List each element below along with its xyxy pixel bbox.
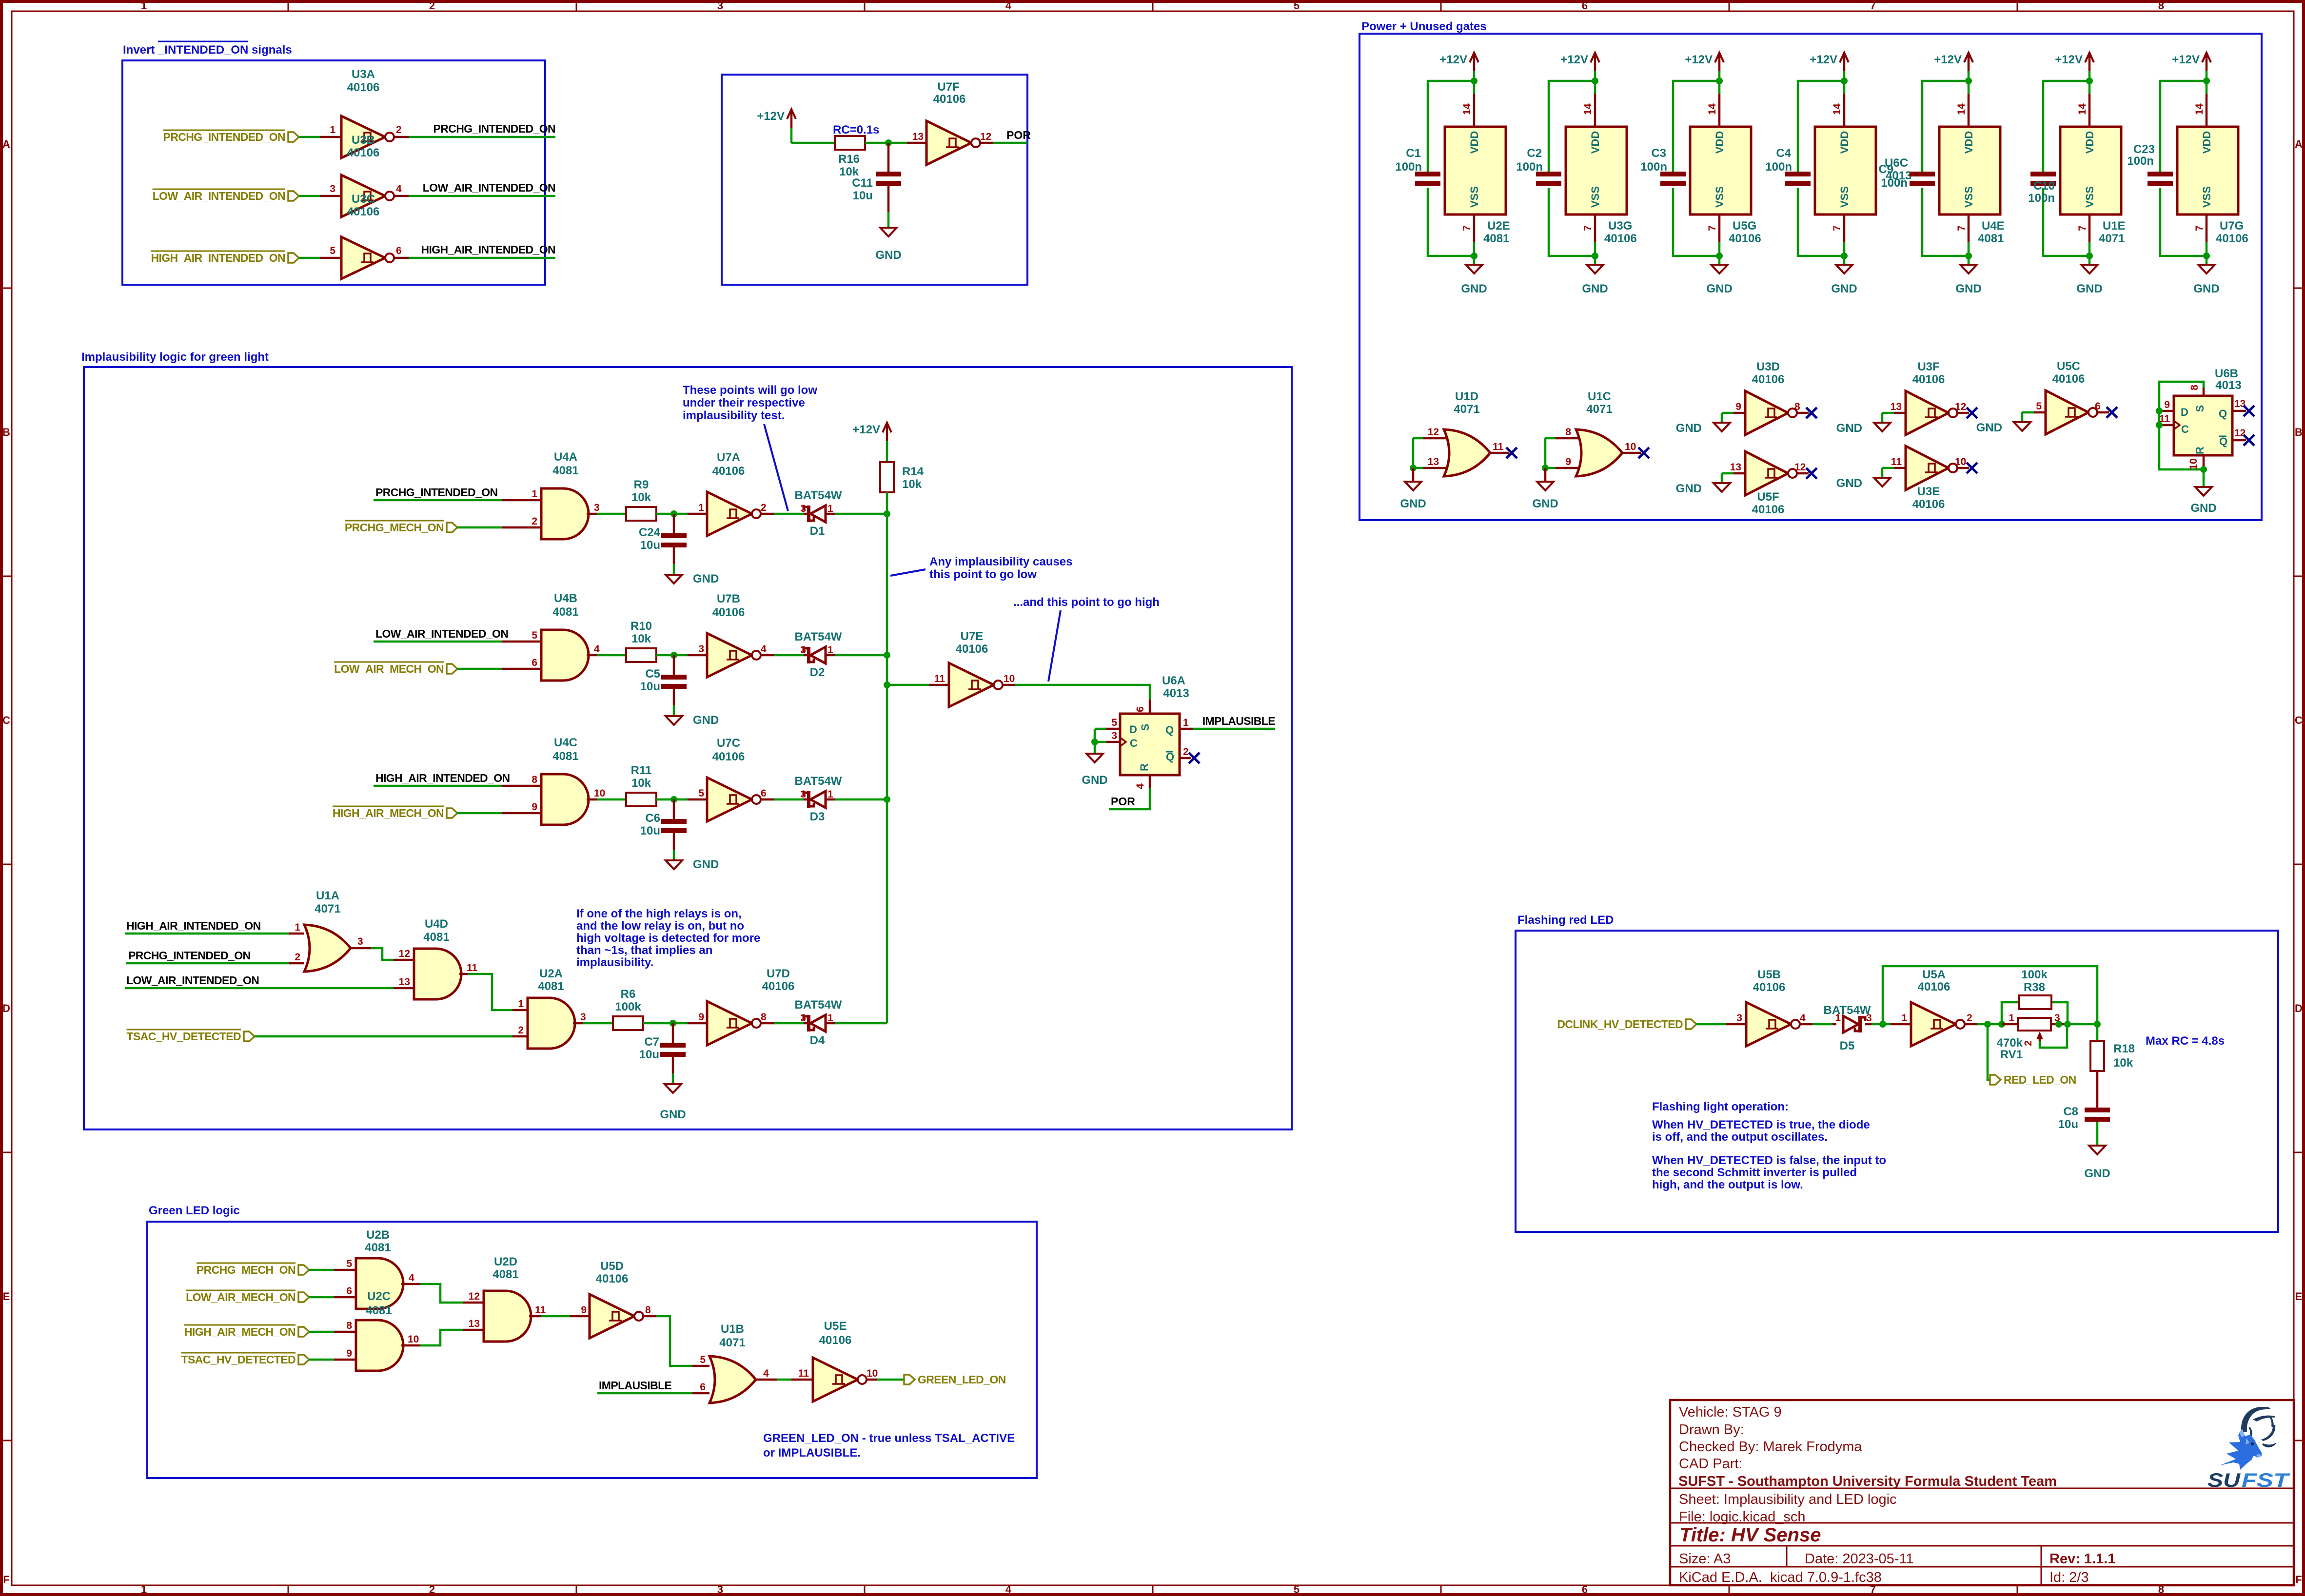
junction (U4E VSS): [1965, 253, 1972, 259]
svg-text:U3G: U3G: [1608, 219, 1632, 233]
svg-text:+12V: +12V: [852, 423, 880, 436]
svg-text:VSS: VSS: [1468, 186, 1480, 208]
svg-text:6: 6: [532, 657, 537, 668]
svg-text:U5B: U5B: [1757, 968, 1781, 981]
svg-text:3: 3: [800, 644, 806, 656]
junction (U1C inputs tied): [1542, 465, 1549, 471]
svg-text:100n: 100n: [1516, 160, 1543, 174]
svg-text:B: B: [2295, 426, 2303, 438]
svg-text:2: 2: [1183, 746, 1189, 758]
wire PRCHG_INTENDED_ON to U3A input: [299, 136, 320, 138]
svg-text:Flashing red LED: Flashing red LED: [1517, 914, 1614, 927]
svg-text:or IMPLAUSIBLE.: or IMPLAUSIBLE.: [763, 1446, 861, 1460]
pin 11 of U1D (unconnected): [1490, 452, 1509, 454]
svg-text:File: logic.kicad_sch: File: logic.kicad_sch: [1679, 1509, 1806, 1525]
pin 10 of U3E (unconnected): [1956, 467, 1969, 469]
svg-text:high voltage is detected for m: high voltage is detected for more: [576, 932, 760, 945]
svg-text:13: 13: [1428, 456, 1439, 467]
wire D4 to rail: [835, 1022, 887, 1025]
svg-text:S: S: [1139, 724, 1151, 731]
svg-text:1: 1: [532, 488, 537, 500]
ground (U3G): [1594, 256, 1596, 265]
svg-text:6: 6: [2095, 401, 2101, 412]
hierarchical label HIGH_AIR_MECH_ON (green box): [298, 1327, 309, 1337]
svg-text:U2A: U2A: [539, 967, 563, 980]
svg-text:LOW_AIR_INTENDED_ON: LOW_AIR_INTENDED_ON: [375, 627, 508, 640]
svg-text:HIGH_AIR_MECH_ON: HIGH_AIR_MECH_ON: [333, 807, 444, 819]
svg-text:5: 5: [346, 1258, 352, 1269]
svg-text:C23: C23: [2133, 143, 2155, 156]
svg-text:A: A: [2, 138, 10, 150]
junction (U1D inputs tied): [1410, 465, 1417, 471]
svg-text:U4D: U4D: [425, 917, 448, 931]
wire R11 to U7C: [656, 798, 688, 801]
OR gate U1D 4071: [1444, 429, 1490, 476]
svg-text:1: 1: [518, 998, 524, 1010]
svg-text:11: 11: [1891, 456, 1902, 467]
wire D3 to rail: [835, 798, 887, 801]
svg-text:10k: 10k: [631, 777, 651, 790]
svg-text:4081: 4081: [365, 1241, 391, 1254]
svg-text:3: 3: [717, 1583, 723, 1596]
AND gate U4D 4081: [414, 949, 461, 999]
svg-text:11: 11: [535, 1304, 546, 1316]
ground (U5F input): [1714, 483, 1730, 492]
svg-text:GND: GND: [1082, 774, 1107, 787]
svg-text:12: 12: [399, 948, 410, 959]
ground (U2E): [1473, 256, 1476, 265]
wire TSAC_HV_DETECTED to U2A pin 2: [255, 1035, 512, 1038]
ground (U1E): [2088, 256, 2091, 265]
inverter U3E 40106: [1906, 446, 1949, 490]
svg-text:C7: C7: [644, 1035, 659, 1049]
capacitor C10 100n: [2030, 172, 2056, 176]
svg-text:BAT54W: BAT54W: [795, 775, 842, 788]
svg-text:U5F: U5F: [1757, 490, 1779, 504]
ground (U3E input): [1874, 478, 1891, 487]
svg-text:HIGH_AIR_MECH_ON: HIGH_AIR_MECH_ON: [184, 1325, 296, 1338]
svg-text:Sheet: Implausibility and LED: Sheet: Implausibility and LED logic: [1679, 1492, 1897, 1507]
wire U3D input to GND: [1722, 412, 1734, 414]
svg-text:10: 10: [408, 1334, 419, 1345]
junction (U5G VSS): [1716, 253, 1723, 259]
svg-text:this point to go low: this point to go low: [929, 568, 1037, 581]
pin 4 of U6A (R) wire POR: [1149, 775, 1151, 788]
capacitor C24 10u: [673, 514, 675, 533]
hierarchical label PRCHG_MECH_ON (green box): [298, 1265, 309, 1275]
svg-text:U1B: U1B: [721, 1323, 744, 1336]
svg-text:GND: GND: [1976, 421, 2002, 434]
AND gate U2C 4081: [356, 1320, 403, 1371]
svg-text:14: 14: [1956, 103, 1967, 115]
hierarchical label PRCHG_MECH_ON: [447, 523, 457, 532]
pin 14 of U6C: [1843, 94, 1846, 127]
svg-text:GND: GND: [1706, 282, 1732, 295]
pin 1 of U6A (Q) wire IMPLAUSIBLE: [1180, 728, 1193, 730]
svg-text:10: 10: [1004, 673, 1015, 684]
svg-text:Any implausibility causes: Any implausibility causes: [929, 555, 1072, 568]
svg-text:7: 7: [2194, 225, 2205, 231]
pin 12 of U6B (unconnected): [2232, 439, 2246, 442]
wire IMPLAUSIBLE to U1B pin 6: [597, 1392, 692, 1395]
wire U3B output: [393, 195, 409, 197]
svg-text:C: C: [1130, 737, 1138, 749]
svg-text:13: 13: [2234, 398, 2246, 409]
svg-text:100n: 100n: [1395, 160, 1422, 174]
svg-text:HIGH_AIR_INTENDED_ON: HIGH_AIR_INTENDED_ON: [126, 919, 261, 932]
svg-text:U2E: U2E: [1487, 219, 1510, 233]
svg-text:GND: GND: [875, 249, 901, 262]
svg-text:10k: 10k: [631, 632, 651, 645]
svg-text:14: 14: [1707, 103, 1718, 115]
svg-text:R18: R18: [2113, 1042, 2135, 1055]
svg-text:the second Schmitt inverter is: the second Schmitt inverter is pulled: [1652, 1166, 1857, 1179]
pin 11 of U6B: [2159, 424, 2174, 427]
svg-text:40106: 40106: [819, 1334, 852, 1347]
svg-text:12: 12: [980, 131, 991, 142]
svg-text:1: 1: [141, 0, 147, 12]
capacitor C11: [887, 143, 890, 172]
wire HIGH_AIR_INTENDED_ON to U1A pin 1: [125, 933, 289, 935]
svg-text:U4A: U4A: [554, 450, 577, 464]
inverter U3B 40106: [341, 175, 385, 217]
svg-text:14: 14: [2194, 103, 2205, 115]
svg-text:1: 1: [1901, 1012, 1907, 1024]
svg-text:7: 7: [1956, 225, 1967, 231]
svg-text:1: 1: [330, 124, 335, 136]
svg-text:1: 1: [141, 1583, 147, 1596]
wire LOW_AIR_MECH_ON: [309, 1296, 334, 1299]
svg-text:10u: 10u: [853, 189, 873, 202]
svg-text:8: 8: [346, 1320, 352, 1331]
svg-text:U1C: U1C: [1588, 390, 1611, 403]
svg-text:14: 14: [2077, 103, 2088, 115]
svg-text:U6B: U6B: [2215, 367, 2238, 380]
svg-text:5: 5: [532, 630, 537, 641]
wire LOW_AIR_MECH_ON to U4B: [457, 668, 502, 670]
AND gate U2A 4081: [528, 998, 575, 1049]
junction (R9/C24): [670, 510, 677, 517]
svg-text:D: D: [2181, 406, 2188, 418]
svg-text:3: 3: [1736, 1012, 1742, 1024]
wire PRCHG_MECH_ON to U4A: [457, 526, 502, 529]
svg-text:R14: R14: [902, 465, 924, 478]
svg-text:GND: GND: [693, 714, 719, 727]
IC power block U4E 4081: [1939, 127, 2000, 214]
svg-text:100n: 100n: [2028, 192, 2055, 205]
inverter U5E 40106: [813, 1358, 858, 1401]
wire U5C input to GND: [2022, 411, 2034, 414]
svg-text:Implausibility logic for green: Implausibility logic for green light: [81, 350, 269, 364]
svg-text:D5: D5: [1840, 1039, 1855, 1052]
svg-text:U4E: U4E: [1982, 219, 2005, 233]
svg-text:5: 5: [2036, 401, 2042, 412]
bypass wire (C10): [2043, 81, 2089, 172]
wires U1C inputs: [1545, 437, 1556, 440]
svg-text:C9: C9: [1878, 163, 1893, 176]
wire HIGH_AIR_MECH_ON to U4C: [457, 812, 502, 815]
svg-text:GND: GND: [1676, 422, 1702, 435]
resistor R11: [626, 793, 656, 806]
svg-text:3: 3: [357, 936, 363, 947]
AND gate U4A 4081: [541, 488, 589, 539]
svg-text:11: 11: [1493, 441, 1504, 452]
AND gate U2D 4081: [484, 1291, 531, 1342]
pin 7 of U5G: [1718, 214, 1721, 242]
wire +12V rail (U3G): [1594, 71, 1596, 94]
svg-text:VDD: VDD: [2201, 131, 2213, 154]
svg-text:1: 1: [827, 789, 833, 800]
pin 14 of U3G: [1594, 94, 1596, 127]
svg-text:3: 3: [800, 789, 806, 800]
inverter U5B 40106: [1746, 1002, 1791, 1046]
svg-text:40106: 40106: [712, 606, 745, 619]
inverter U3A 40106: [341, 116, 385, 158]
wire rail to U7E input: [887, 684, 929, 686]
wire R10 to U7B: [656, 654, 688, 657]
svg-text:8: 8: [1794, 401, 1800, 412]
svg-text:2: 2: [532, 516, 537, 527]
section box: Invert _INTENDED_ON signals: [122, 60, 545, 285]
svg-text:IMPLAUSIBLE: IMPLAUSIBLE: [599, 1379, 672, 1392]
inverter U5D 40106: [590, 1294, 634, 1338]
junction (U5G VDD): [1716, 78, 1723, 84]
svg-text:10k: 10k: [631, 491, 651, 504]
pin 14 of U7G: [2206, 94, 2208, 127]
svg-text:4081: 4081: [1978, 232, 2004, 245]
wire R6 to U7D: [643, 1022, 688, 1025]
wire U3E input to GND: [1882, 467, 1894, 469]
diode D5 BAT54W: [1832, 1023, 1836, 1026]
svg-text:1: 1: [1183, 717, 1189, 728]
svg-text:+12V: +12V: [2055, 53, 2083, 66]
wire U6A D/C tie to ground: [1094, 729, 1096, 754]
svg-text:1: 1: [2009, 1012, 2014, 1024]
svg-text:VDD: VDD: [1838, 131, 1851, 154]
flip-flop U6A 4013: [1120, 714, 1180, 775]
power +12V (U5G): [1718, 54, 1721, 71]
svg-text:14: 14: [1832, 103, 1843, 115]
svg-text:high, and the output is low.: high, and the output is low.: [1652, 1178, 1803, 1191]
pin 10 of U6B: [2203, 455, 2205, 469]
svg-text:U3B: U3B: [352, 134, 375, 147]
hierarchical label GREEN_LED_ON (output): [904, 1375, 915, 1384]
hierarchical label TSAC_HV_DETECTED (green box): [298, 1355, 309, 1364]
junction (D5 output): [1879, 1021, 1886, 1028]
pin 5 of U6A: [1095, 728, 1106, 730]
svg-text:8: 8: [532, 774, 537, 785]
svg-text:D: D: [2, 1002, 10, 1014]
hierarchical label DCLINK_HV_DETECTED: [1686, 1019, 1696, 1029]
inverter U7B 40106: [707, 633, 752, 677]
junction (R11/C6): [670, 796, 677, 803]
wire +12V rail (U7G): [2206, 71, 2208, 94]
svg-text:3: 3: [800, 503, 806, 514]
svg-text:5: 5: [330, 245, 335, 256]
svg-text:GND: GND: [1582, 282, 1608, 295]
svg-text:GREEN_LED_ON - true unless TSA: GREEN_LED_ON - true unless TSAL_ACTIVE: [763, 1432, 1015, 1445]
svg-text:U1D: U1D: [1455, 390, 1478, 403]
svg-text:40106: 40106: [2052, 372, 2085, 386]
svg-text:4071: 4071: [719, 1336, 745, 1349]
title block outline: [1670, 1400, 2294, 1585]
inverter U3D 40106: [1745, 391, 1788, 435]
svg-text:R11: R11: [631, 764, 652, 777]
svg-text:4081: 4081: [366, 1304, 392, 1317]
svg-text:12: 12: [1794, 462, 1806, 473]
resistor R10: [626, 648, 656, 662]
power +12V (U7G): [2206, 54, 2208, 71]
svg-text:13: 13: [1891, 401, 1902, 412]
svg-text:implausibility.: implausibility.: [576, 956, 653, 969]
svg-text:GND: GND: [693, 858, 719, 871]
svg-text:14: 14: [1582, 103, 1594, 115]
svg-text:5: 5: [1294, 0, 1300, 12]
svg-text:U1E: U1E: [2103, 219, 2126, 233]
svg-text:11: 11: [467, 962, 478, 973]
svg-text:40106: 40106: [596, 1272, 629, 1285]
callout line (any implausibility): [890, 569, 926, 576]
svg-text:3: 3: [698, 643, 704, 655]
svg-text:2: 2: [396, 124, 402, 136]
svg-text:POR: POR: [1006, 129, 1031, 141]
bypass wire (C2): [1549, 81, 1595, 172]
svg-text:RC=0.1s: RC=0.1s: [833, 123, 879, 136]
svg-text:1: 1: [1835, 1012, 1841, 1024]
AND gate U2B 4081: [356, 1258, 403, 1309]
svg-text:under their respective: under their respective: [683, 396, 805, 409]
svg-text:13: 13: [1730, 462, 1741, 473]
svg-text:GND: GND: [1532, 497, 1558, 510]
svg-text:GND: GND: [1955, 282, 1981, 295]
wire U2C output to U2D pin 13: [401, 1344, 420, 1347]
ground (U6B): [2203, 469, 2205, 487]
svg-text:3: 3: [330, 183, 335, 195]
svg-text:U5D: U5D: [600, 1260, 624, 1273]
svg-text:+12V: +12V: [757, 110, 785, 123]
hierarchical label PRCHG_INTENDED_ON (input): [288, 132, 299, 142]
svg-text:4081: 4081: [493, 1268, 518, 1281]
wire PRCHG_INTENDED_ON to U4A: [374, 499, 502, 502]
junction (rail to U7E): [884, 681, 890, 688]
svg-text:VDD: VDD: [1468, 131, 1480, 154]
potentiometer RV1: [2002, 1023, 2018, 1026]
svg-text:BAT54W: BAT54W: [1824, 1004, 1871, 1017]
svg-text:1: 1: [827, 503, 833, 514]
svg-text:9: 9: [346, 1348, 352, 1359]
wire U2A output to R6: [573, 1022, 583, 1025]
svg-text:9: 9: [581, 1304, 587, 1316]
svg-text:10u: 10u: [640, 539, 660, 552]
wire U7F output POR: [979, 142, 993, 144]
svg-text:5: 5: [1294, 1583, 1300, 1596]
wire +12V rail (U4E): [1968, 71, 1970, 94]
wire RED_LED_ON tap: [1988, 1024, 1990, 1080]
svg-text:PRCHG_INTENDED_ON: PRCHG_INTENDED_ON: [375, 486, 498, 499]
svg-text:U5C: U5C: [2057, 360, 2080, 373]
svg-text:BAT54W: BAT54W: [795, 489, 842, 502]
svg-text:C24: C24: [639, 526, 661, 539]
svg-text:13: 13: [469, 1318, 480, 1329]
svg-text:100k: 100k: [2021, 968, 2048, 981]
junction (U6C VDD): [1841, 78, 1848, 84]
svg-text:U2D: U2D: [494, 1255, 517, 1268]
svg-text:9: 9: [698, 1012, 704, 1023]
ground (U5G): [1718, 256, 1721, 265]
svg-text:C2: C2: [1527, 147, 1542, 160]
wires U1D inputs: [1413, 437, 1423, 440]
svg-text:12: 12: [2234, 428, 2246, 439]
svg-text:D2: D2: [810, 666, 825, 679]
svg-text:13: 13: [399, 976, 410, 988]
svg-text:4: 4: [763, 1368, 769, 1379]
svg-text:10u: 10u: [639, 1048, 659, 1061]
svg-text:7: 7: [1832, 225, 1843, 231]
inverter U7E 40106: [949, 663, 994, 707]
svg-text:PRCHG_MECH_ON: PRCHG_MECH_ON: [345, 521, 444, 534]
ground (C24): [666, 575, 682, 584]
svg-text:40106: 40106: [2216, 232, 2248, 245]
svg-text:6: 6: [396, 245, 402, 256]
ground (U7G): [2206, 256, 2208, 265]
svg-text:10k: 10k: [2113, 1056, 2133, 1070]
svg-text:PRCHG_INTENDED_ON: PRCHG_INTENDED_ON: [433, 122, 555, 135]
svg-text:VDD: VDD: [1589, 131, 1601, 154]
svg-text:4081: 4081: [1483, 232, 1509, 245]
wire HIGH_AIR_MECH_ON: [309, 1331, 334, 1333]
svg-text:3: 3: [1111, 730, 1117, 741]
wire U2D output to U5D: [529, 1315, 541, 1318]
svg-text:Q: Q: [2219, 435, 2227, 448]
wire +12V rail (U1E): [2088, 71, 2091, 94]
svg-text:11: 11: [934, 673, 946, 684]
IC power block U5G 40106: [1690, 127, 1751, 214]
svg-text:R16: R16: [838, 153, 860, 166]
junction (U6B R tie): [2200, 466, 2207, 473]
svg-text:U5G: U5G: [1733, 219, 1756, 233]
svg-text:D4: D4: [810, 1034, 825, 1047]
junction (R6/C7): [670, 1020, 676, 1027]
ground (U6A): [1086, 754, 1103, 762]
wire HIGH_AIR_INTENDED_ON to U4C: [374, 785, 502, 787]
section box: Flashing red LED: [1516, 931, 2278, 1232]
power +12V (U3G): [1594, 54, 1596, 71]
svg-text:U6A: U6A: [1162, 674, 1185, 687]
svg-text:PRCHG_INTENDED_ON: PRCHG_INTENDED_ON: [128, 949, 251, 962]
resistor R14: [880, 462, 894, 492]
svg-text:Q: Q: [1166, 751, 1174, 763]
wire U5A output node: [1964, 1023, 1977, 1026]
svg-text:2: 2: [518, 1025, 524, 1036]
svg-text:VSS: VSS: [1963, 186, 1975, 208]
svg-text:U7G: U7G: [2220, 219, 2244, 233]
svg-text:1: 1: [698, 502, 704, 513]
svg-text:U3C: U3C: [352, 193, 375, 206]
svg-text:RV1: RV1: [2000, 1048, 2023, 1061]
svg-text:8: 8: [761, 1012, 767, 1023]
svg-text:5: 5: [700, 1354, 706, 1365]
svg-text:6: 6: [1582, 1583, 1588, 1596]
svg-text:Power + Unused gates: Power + Unused gates: [1361, 20, 1487, 33]
svg-text:GND: GND: [693, 572, 719, 585]
svg-text:VSS: VSS: [1589, 186, 1601, 208]
svg-text:12: 12: [1428, 427, 1439, 438]
callout line (point to go high): [1048, 610, 1061, 681]
svg-text:GND: GND: [2190, 502, 2216, 515]
inverter U3C 40106: [341, 237, 385, 279]
capacitor C4 100n: [1785, 172, 1811, 176]
svg-text:Max RC = 4.8s: Max RC = 4.8s: [2146, 1034, 2225, 1048]
